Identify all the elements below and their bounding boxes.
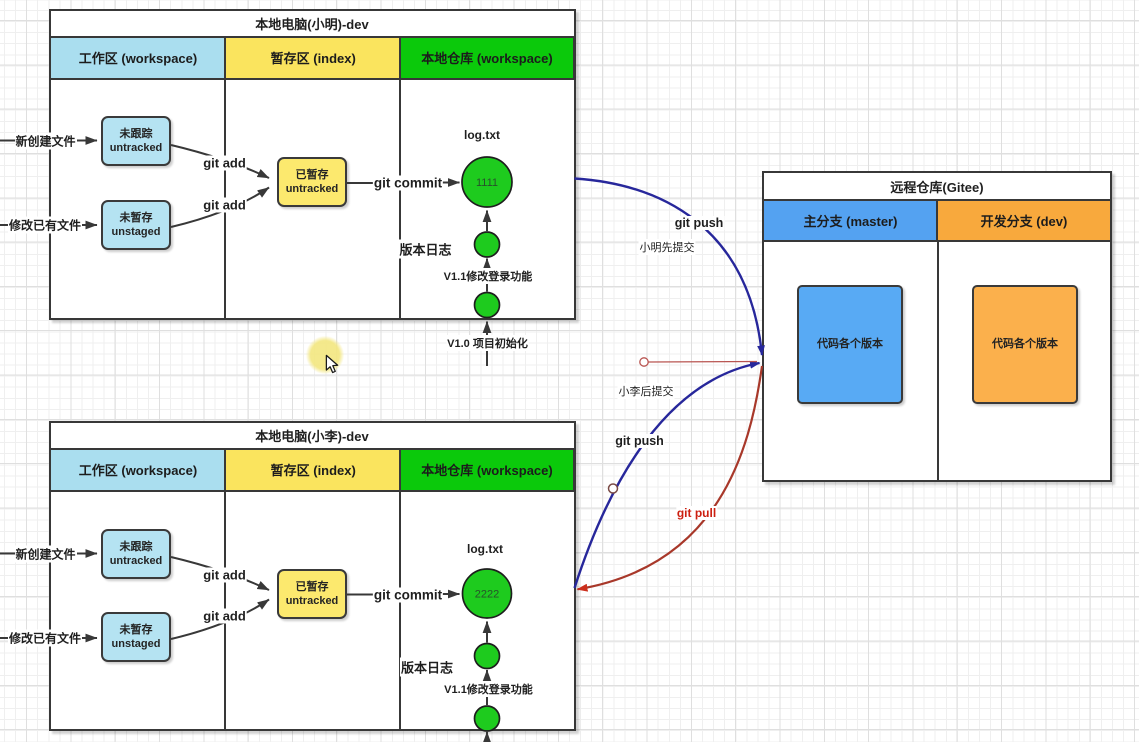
svg-text:1111: 1111	[476, 177, 498, 189]
svg-text:2222: 2222	[475, 589, 499, 601]
